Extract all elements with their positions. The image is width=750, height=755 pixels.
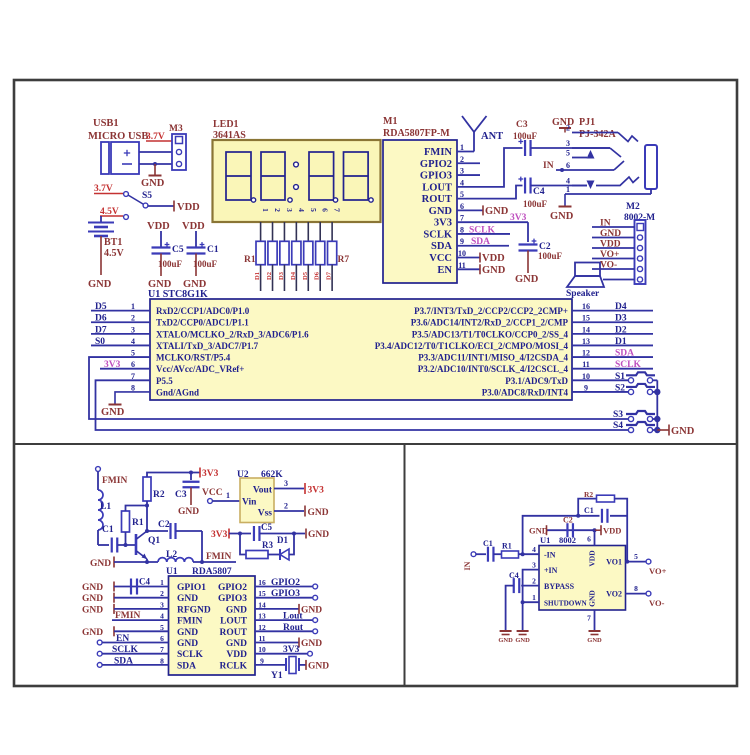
svg-text:C1: C1 [102, 525, 114, 535]
svg-text:8: 8 [131, 383, 135, 392]
svg-text:3V3: 3V3 [202, 469, 219, 479]
svg-text:R1: R1 [502, 542, 512, 551]
svg-text:C5: C5 [261, 522, 272, 532]
svg-text:XTALO/MCLKO_2/RxD_3/ADC6/P1.6: XTALO/MCLKO_2/RxD_3/ADC6/P1.6 [156, 329, 309, 339]
svg-text:GND: GND [226, 639, 247, 649]
svg-text:C3: C3 [175, 490, 187, 500]
svg-text:GPIO3: GPIO3 [271, 589, 300, 599]
svg-text:LOUT: LOUT [422, 182, 452, 193]
svg-text:IN: IN [543, 161, 554, 171]
svg-text:3: 3 [532, 561, 536, 570]
svg-text:VDD: VDD [177, 202, 200, 213]
svg-text:BT1: BT1 [104, 237, 122, 248]
svg-text:8002-M: 8002-M [624, 213, 655, 223]
svg-text:VO+: VO+ [649, 566, 667, 576]
svg-text:3V3: 3V3 [283, 645, 300, 655]
svg-text:GND: GND [600, 229, 621, 239]
svg-text:D3: D3 [615, 314, 627, 324]
svg-text:4: 4 [532, 545, 536, 554]
svg-text:SDA: SDA [431, 241, 452, 252]
svg-text:MICRO USB: MICRO USB [88, 131, 148, 142]
svg-text:R7: R7 [338, 255, 350, 265]
svg-text:SDA: SDA [471, 237, 490, 247]
svg-text:D4: D4 [615, 302, 627, 312]
svg-text:S5: S5 [142, 191, 152, 201]
svg-text:GPIO3: GPIO3 [218, 594, 247, 604]
svg-text:LOUT: LOUT [220, 617, 248, 627]
svg-text:VDD: VDD [588, 550, 597, 567]
svg-text:4.5V: 4.5V [104, 248, 125, 259]
svg-text:GND: GND [101, 407, 125, 418]
svg-text:D4: D4 [290, 271, 297, 280]
svg-text:100uF: 100uF [538, 251, 563, 261]
svg-text:GND: GND [671, 426, 695, 437]
svg-text:D2: D2 [266, 272, 273, 280]
svg-text:5: 5 [309, 208, 318, 212]
svg-text:GND: GND [308, 661, 329, 671]
svg-text:VO1: VO1 [606, 558, 622, 567]
svg-text:VDD: VDD [182, 221, 205, 232]
svg-text:U1: U1 [540, 535, 550, 545]
svg-text:GND: GND [177, 639, 198, 649]
svg-text:C2: C2 [563, 516, 573, 525]
svg-text:S0: S0 [95, 337, 105, 347]
svg-text:TxD2/CCP0/ADC1/P1.1: TxD2/CCP0/ADC1/P1.1 [156, 318, 249, 328]
svg-text:VO-: VO- [649, 598, 665, 608]
svg-text:RCLK: RCLK [220, 661, 248, 671]
svg-text:MCLKO/RST/P5.4: MCLKO/RST/P5.4 [156, 353, 231, 363]
svg-text:GND: GND [88, 279, 112, 290]
svg-text:ROUT: ROUT [220, 628, 248, 638]
svg-text:4: 4 [297, 208, 306, 212]
svg-text:3: 3 [566, 139, 570, 148]
svg-text:C3: C3 [516, 120, 528, 130]
svg-text:Speaker: Speaker [566, 289, 600, 299]
svg-text:FMIN: FMIN [206, 552, 231, 562]
svg-text:VCC: VCC [202, 488, 223, 498]
svg-text:PJ1: PJ1 [579, 117, 595, 128]
svg-text:C4: C4 [509, 571, 519, 580]
svg-text:3V3: 3V3 [510, 213, 527, 223]
svg-text:GND: GND [550, 211, 574, 222]
svg-text:GND: GND [226, 605, 247, 615]
svg-text:D2: D2 [615, 325, 627, 335]
svg-text:VDD: VDD [600, 240, 621, 250]
svg-text:GND: GND [308, 508, 329, 518]
svg-text:SCLK: SCLK [469, 225, 495, 235]
svg-text:7: 7 [587, 614, 591, 623]
svg-text:2: 2 [566, 124, 570, 133]
svg-text:SDA: SDA [615, 349, 634, 359]
svg-text:3: 3 [285, 208, 294, 212]
svg-text:GND: GND [178, 507, 199, 517]
svg-text:VDD: VDD [603, 526, 621, 536]
svg-text:ANT: ANT [481, 131, 503, 142]
svg-text:C4: C4 [533, 187, 545, 197]
svg-text:P5.5: P5.5 [156, 376, 173, 386]
svg-text:R3: R3 [262, 540, 273, 550]
svg-text:BYPASS: BYPASS [544, 582, 575, 591]
svg-text:IN: IN [463, 561, 472, 570]
svg-text:D7: D7 [95, 325, 107, 335]
svg-text:L2: L2 [166, 550, 177, 560]
svg-text:Vss: Vss [258, 509, 273, 519]
svg-text:-IN: -IN [544, 551, 556, 560]
svg-text:Vin: Vin [242, 498, 257, 508]
svg-text:R2: R2 [584, 490, 593, 499]
svg-text:M1: M1 [383, 116, 397, 127]
svg-text:VDD: VDD [147, 221, 170, 232]
svg-text:D7: D7 [326, 271, 333, 280]
svg-text:S4: S4 [613, 421, 623, 431]
svg-text:L1: L1 [100, 502, 111, 512]
svg-text:GND: GND [90, 559, 111, 569]
svg-text:1: 1 [566, 185, 570, 194]
svg-text:GND: GND [529, 526, 548, 536]
svg-text:100uF: 100uF [523, 199, 548, 209]
svg-text:VO+: VO+ [600, 250, 619, 260]
svg-text:IN: IN [600, 219, 611, 229]
svg-text:Gnd/AGnd: Gnd/AGnd [156, 387, 199, 397]
svg-text:R1: R1 [244, 255, 256, 265]
svg-text:GND: GND [308, 530, 329, 540]
svg-text:D1: D1 [277, 535, 288, 545]
svg-text:GND: GND [301, 639, 322, 649]
svg-text:2: 2 [273, 208, 282, 212]
svg-text:FMIN: FMIN [102, 476, 127, 486]
svg-text:3V3: 3V3 [434, 218, 452, 229]
svg-text:GND: GND [82, 605, 103, 615]
svg-text:3: 3 [284, 479, 288, 488]
svg-text:P3.4/ADC12/T0/T1CLKO/ECI_2/CMP: P3.4/ADC12/T0/T1CLKO/ECI_2/CMPO/MOSI_4 [375, 341, 569, 351]
svg-text:M3: M3 [169, 124, 183, 134]
svg-text:FMIN: FMIN [424, 147, 452, 158]
svg-text:EN: EN [437, 265, 452, 276]
svg-text:GND: GND [141, 178, 165, 189]
svg-text:EN: EN [116, 634, 129, 644]
svg-text:SDA: SDA [114, 656, 133, 666]
svg-text:100uF: 100uF [513, 131, 538, 141]
svg-text:VCC: VCC [429, 253, 452, 264]
svg-text:S3: S3 [613, 410, 623, 420]
svg-text:SCLK: SCLK [423, 229, 452, 240]
svg-text:P3.3/ADC11/INT1/MISO_4/I2CSDA_: P3.3/ADC11/INT1/MISO_4/I2CSDA_4 [418, 353, 568, 363]
svg-text:3V3: 3V3 [308, 486, 325, 496]
svg-text:Rout: Rout [283, 623, 304, 633]
svg-text:P3.0/ADC8/RxD/INT4: P3.0/ADC8/RxD/INT4 [482, 387, 569, 397]
svg-text:XTALI/TxD_3/ADC7/P1.7: XTALI/TxD_3/ADC7/P1.7 [156, 341, 259, 351]
svg-text:D1: D1 [254, 272, 261, 280]
svg-text:GND: GND [515, 637, 530, 644]
svg-text:6: 6 [566, 161, 570, 170]
svg-text:GPIO2: GPIO2 [271, 578, 300, 588]
svg-text:R1: R1 [132, 518, 144, 528]
svg-text:SDA: SDA [177, 661, 196, 671]
svg-text:GPIO3: GPIO3 [420, 171, 452, 182]
svg-text:SCLK: SCLK [615, 360, 641, 370]
svg-text:USB1: USB1 [93, 118, 119, 129]
svg-text:6: 6 [321, 208, 330, 212]
svg-text:PJ-342A: PJ-342A [579, 129, 616, 140]
svg-text:SHUTDOWN: SHUTDOWN [544, 600, 588, 608]
svg-text:P3.7/INT3/TxD_2/CCP2/CCP2_2CMP: P3.7/INT3/TxD_2/CCP2/CCP2_2CMP+ [414, 306, 568, 316]
svg-text:GND: GND [482, 265, 506, 276]
svg-text:C1: C1 [207, 245, 219, 255]
svg-text:C5: C5 [172, 245, 184, 255]
svg-text:P3.1/ADC9/TxD: P3.1/ADC9/TxD [505, 376, 568, 386]
svg-text:GND: GND [515, 274, 539, 285]
svg-text:D6: D6 [95, 314, 107, 324]
svg-text:GND: GND [588, 590, 597, 607]
svg-text:3V3: 3V3 [211, 530, 228, 540]
svg-text:GPIO1: GPIO1 [177, 583, 206, 593]
svg-text:FMIN: FMIN [177, 617, 202, 627]
svg-text:Vcc/AVcc/ADC_VRef+: Vcc/AVcc/ADC_VRef+ [156, 364, 244, 374]
svg-text:+IN: +IN [544, 566, 558, 575]
svg-text:C4: C4 [139, 577, 150, 587]
svg-text:GND: GND [485, 206, 509, 217]
svg-text:Vout: Vout [253, 486, 273, 496]
svg-text:SCLK: SCLK [177, 650, 203, 660]
svg-text:Q1: Q1 [148, 536, 160, 546]
svg-text:5: 5 [566, 149, 570, 158]
svg-text:1: 1 [226, 491, 230, 500]
svg-text:VDD: VDD [482, 253, 505, 264]
svg-text:GND: GND [177, 628, 198, 638]
svg-text:Y1: Y1 [271, 671, 283, 681]
svg-text:P3.5/ADC13/T1/T0CLKO/CCP0_2/SS: P3.5/ADC13/T1/T0CLKO/CCP0_2/SS_4 [412, 329, 569, 339]
svg-text:P3.2/ADC10/INT0/SCLK_4/I2CSCL_: P3.2/ADC10/INT0/SCLK_4/I2CSCL_4 [418, 364, 569, 374]
svg-text:GND: GND [301, 605, 322, 615]
svg-text:7: 7 [333, 208, 342, 212]
svg-text:D1: D1 [615, 337, 627, 347]
svg-text:VO-: VO- [600, 261, 617, 271]
svg-text:GND: GND [82, 594, 103, 604]
svg-text:GND: GND [587, 637, 602, 644]
svg-text:P3.6/ADC14/INT2/RxD_2/CCP1_2/C: P3.6/ADC14/INT2/RxD_2/CCP1_2/CMP [411, 318, 569, 328]
svg-text:C1: C1 [483, 539, 493, 548]
svg-text:LED1: LED1 [213, 119, 239, 130]
svg-text:D5: D5 [302, 271, 309, 280]
svg-text:D3: D3 [278, 271, 285, 280]
svg-text:VO2: VO2 [606, 590, 622, 599]
svg-text:Lout: Lout [283, 612, 303, 622]
svg-text:GND: GND [82, 628, 103, 638]
svg-text:5: 5 [634, 552, 638, 561]
svg-text:GND: GND [552, 117, 574, 128]
svg-text:C2: C2 [158, 520, 170, 530]
svg-text:VDD: VDD [226, 650, 247, 660]
svg-text:3V3: 3V3 [104, 360, 121, 370]
svg-text:1: 1 [532, 593, 536, 602]
svg-text:2: 2 [532, 577, 536, 586]
svg-text:3.7V: 3.7V [94, 184, 113, 194]
svg-text:R2: R2 [153, 490, 165, 500]
svg-text:RDA5807FP-M: RDA5807FP-M [383, 128, 450, 139]
svg-text:ROUT: ROUT [422, 194, 452, 205]
svg-text:RxD2/CCP1/ADC0/P1.0: RxD2/CCP1/ADC0/P1.0 [156, 306, 250, 316]
svg-text:GND: GND [498, 637, 513, 644]
svg-text:GND: GND [429, 206, 453, 217]
svg-text:C1: C1 [584, 506, 594, 515]
svg-text:GND: GND [177, 594, 198, 604]
svg-text:RFGND: RFGND [177, 605, 211, 615]
svg-text:GPIO2: GPIO2 [218, 583, 247, 593]
svg-text:2: 2 [284, 502, 288, 511]
svg-text:D5: D5 [95, 302, 107, 312]
svg-text:6: 6 [587, 535, 591, 544]
svg-text:GND: GND [82, 583, 103, 593]
svg-text:1: 1 [261, 208, 270, 212]
svg-text:GPIO2: GPIO2 [420, 159, 452, 170]
svg-text:D6: D6 [314, 271, 321, 280]
svg-text:8: 8 [634, 584, 638, 593]
svg-text:SCLK: SCLK [112, 645, 138, 655]
svg-text:M2: M2 [626, 202, 640, 212]
